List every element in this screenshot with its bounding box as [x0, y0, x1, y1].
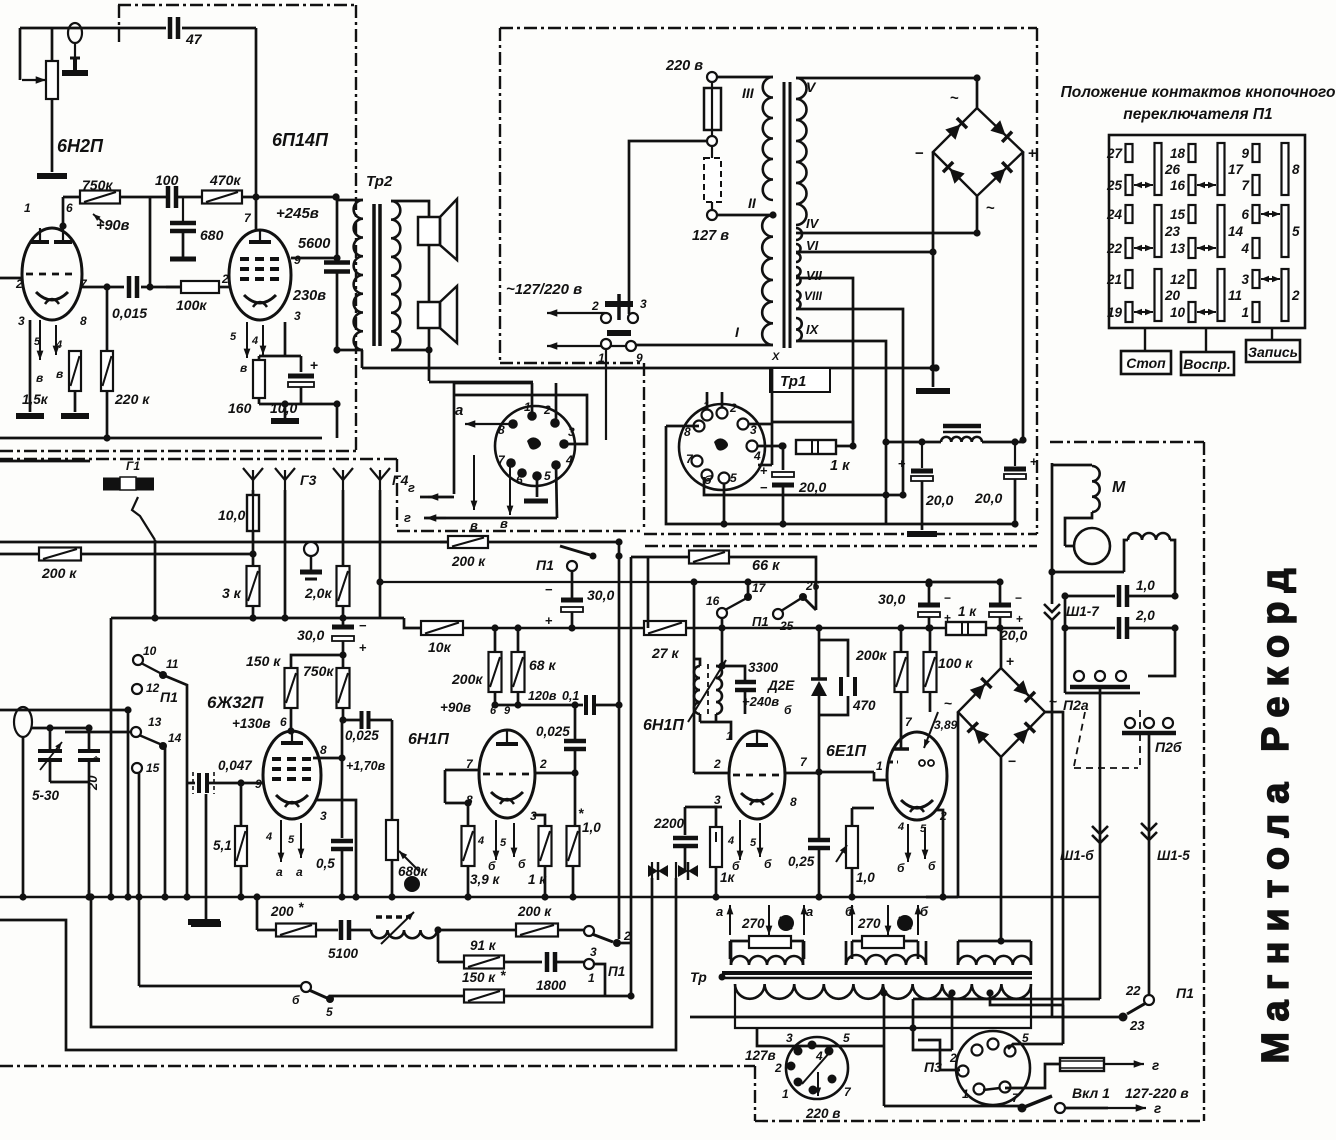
- svg-text:8: 8: [790, 795, 797, 809]
- wire 13 contact: [127, 710, 130, 897]
- resistor 3,9к: [445, 802, 470, 805]
- svg-text:1: 1: [524, 400, 531, 414]
- svg-text:21: 21: [1106, 272, 1122, 287]
- pin3 wire: [315, 800, 356, 897]
- resistor 1к bias: [946, 622, 986, 635]
- contact table box: [1109, 135, 1305, 328]
- cap 30,0 AM: [342, 618, 345, 625]
- rectifier bridge 2: [958, 668, 1045, 757]
- resistor 2,0к: [342, 490, 345, 566]
- svg-text:~127/220 в: ~127/220 в: [506, 281, 582, 298]
- bridge2 connections: [1000, 628, 1003, 668]
- wire motor junction: [1052, 571, 1124, 574]
- svg-text:680: 680: [200, 227, 224, 243]
- resistor 150к*: [330, 996, 464, 999]
- svg-text:в: в: [36, 371, 43, 385]
- Тр core: [722, 971, 1032, 975]
- svg-text:б: б: [292, 993, 300, 1007]
- svg-text:IV: IV: [806, 216, 820, 231]
- svg-text:Ш1-5: Ш1-5: [1157, 848, 1190, 863]
- svg-text:0,1: 0,1: [562, 689, 579, 703]
- svg-text:22: 22: [1106, 241, 1123, 256]
- svg-text:+90в: +90в: [440, 700, 471, 715]
- radio bus upper: [111, 617, 404, 620]
- svg-text:4: 4: [727, 835, 734, 847]
- svg-text:18: 18: [1170, 146, 1186, 161]
- svg-text:16: 16: [706, 594, 720, 608]
- svg-text:Воспр.: Воспр.: [1183, 356, 1230, 372]
- resistor 5,1: [237, 779, 244, 786]
- svg-text:~: ~: [986, 200, 995, 217]
- Ш1-5 connector: [1141, 823, 1157, 831]
- svg-text:Стоп: Стоп: [1126, 355, 1166, 371]
- ground 1,5к: [16, 413, 44, 419]
- bottom wire amp: [0, 437, 322, 440]
- speaker return wires: [429, 381, 533, 384]
- svg-text:3: 3: [714, 793, 721, 807]
- contacts group1 row1: [1126, 144, 1133, 162]
- svg-text:9: 9: [294, 253, 301, 267]
- winding VII: [796, 267, 801, 285]
- svg-text:−: −: [760, 480, 768, 495]
- svg-text:1,5к: 1,5к: [22, 392, 49, 407]
- svg-text:12: 12: [146, 681, 160, 695]
- П1 contact 6-5: [139, 985, 301, 988]
- motor M: [1051, 463, 1054, 572]
- svg-text:+: +: [898, 456, 906, 471]
- svg-text:+: +: [310, 357, 318, 373]
- svg-text:X: X: [771, 351, 780, 363]
- svg-text:0,025: 0,025: [345, 728, 379, 743]
- svg-text:Ш1-б: Ш1-б: [1060, 848, 1094, 863]
- heater return wires: [666, 425, 699, 428]
- Ш1-7 connector: [1044, 604, 1060, 612]
- svg-text:0,025: 0,025: [536, 724, 570, 739]
- resistor 200*: [256, 897, 259, 930]
- svg-text:3: 3: [18, 314, 25, 328]
- svg-text:25: 25: [779, 619, 794, 633]
- cathode arrows 6Н1П2: [739, 820, 741, 860]
- svg-text:17: 17: [1228, 162, 1245, 177]
- svg-text:*: *: [578, 805, 584, 821]
- bus 582: [380, 581, 929, 583]
- pot 680к: [391, 800, 394, 820]
- svg-text:26: 26: [1164, 162, 1181, 177]
- svg-text:2: 2: [949, 1051, 957, 1065]
- svg-text:6: 6: [66, 201, 73, 215]
- filter cap 20,0 first: [921, 442, 923, 468]
- socket a wires: [531, 383, 534, 416]
- svg-text:6: 6: [1241, 207, 1249, 222]
- svg-text:в: в: [56, 367, 63, 381]
- svg-text:6: 6: [516, 473, 523, 487]
- wire 15 down: [138, 772, 141, 897]
- ground bus radio: [0, 896, 1100, 899]
- wire VII loop: [772, 422, 853, 446]
- svg-text:5600: 5600: [298, 236, 330, 252]
- svg-text:14: 14: [168, 731, 182, 745]
- svg-text:1 к: 1 к: [528, 872, 547, 887]
- svg-text:100 к: 100 к: [938, 655, 973, 671]
- cap 30,0 П1: [571, 571, 574, 598]
- svg-text:5: 5: [843, 1031, 850, 1045]
- svg-text:1: 1: [1241, 305, 1249, 320]
- svg-text:30,0: 30,0: [587, 587, 614, 603]
- Тр1 label box: [770, 368, 830, 392]
- volume pot: [22, 79, 46, 81]
- winding VI: [796, 244, 801, 262]
- svg-text:+: +: [1006, 653, 1014, 669]
- ground radio bus: [188, 919, 220, 925]
- capacitor 680: [182, 197, 184, 222]
- svg-text:20,0: 20,0: [798, 479, 826, 495]
- Тр1 primary III: [717, 76, 773, 79]
- cap 2,0 tape: [1065, 627, 1115, 630]
- Тр2 core: [372, 204, 376, 346]
- svg-text:5: 5: [750, 837, 757, 849]
- П3 socket right: [956, 1031, 1030, 1105]
- svg-text:III: III: [742, 85, 755, 101]
- left frame down: [110, 618, 113, 897]
- wire bottom left: [884, 1105, 1022, 1108]
- svg-text:270: 270: [741, 916, 765, 931]
- svg-text:2,0: 2,0: [1135, 608, 1155, 623]
- power block border: [500, 27, 1037, 29]
- svg-text:15: 15: [1170, 207, 1186, 222]
- svg-text:26: 26: [805, 579, 820, 593]
- svg-text:3: 3: [320, 809, 327, 823]
- Тр2 secondary: [391, 201, 400, 350]
- svg-text:Запись: Запись: [1248, 344, 1298, 360]
- resistor 91к: [438, 961, 464, 964]
- fuse 220: [704, 88, 721, 130]
- capacitor 5600: [336, 197, 339, 262]
- contacts group3 row1: [1253, 144, 1260, 162]
- svg-text:25: 25: [1106, 178, 1123, 193]
- wire selector down: [605, 349, 607, 440]
- fuse bottom: [1005, 1064, 1060, 1088]
- bridge top wire: [976, 78, 979, 108]
- wire fb down: [437, 930, 440, 962]
- cathode arrows 6Ж32П: [280, 820, 282, 862]
- svg-text:2: 2: [539, 757, 547, 771]
- svg-text:20: 20: [85, 775, 100, 791]
- antenna symbols: [243, 468, 263, 480]
- svg-text:Тр: Тр: [690, 969, 707, 985]
- svg-text:3300: 3300: [748, 660, 779, 675]
- svg-text:4: 4: [565, 453, 573, 467]
- svg-text:~: ~: [950, 90, 959, 107]
- svg-text:IX: IX: [806, 322, 820, 337]
- resistor 100к 6Е1П: [926, 624, 933, 631]
- svg-text:200 к: 200 к: [451, 554, 486, 569]
- П1 contact 3-2: [584, 926, 594, 936]
- wire top 582: [929, 581, 1000, 584]
- heater wire: [362, 367, 936, 370]
- wire 11 down: [163, 675, 187, 897]
- head contacts: [648, 865, 658, 877]
- svg-text:5: 5: [326, 1005, 333, 1019]
- svg-text:2: 2: [543, 403, 551, 417]
- tape deck block border: [1050, 441, 1204, 443]
- svg-text:200: 200: [270, 904, 294, 919]
- svg-text:13: 13: [1170, 241, 1186, 256]
- long vertical 66к line: [630, 557, 633, 996]
- svg-text:−: −: [1008, 753, 1016, 769]
- svg-text:П1: П1: [1176, 985, 1194, 1001]
- svg-text:10,0: 10,0: [218, 507, 245, 523]
- П2а dashed: [1074, 712, 1085, 766]
- speaker 1: [418, 217, 440, 245]
- П2 wires down: [1099, 687, 1102, 999]
- resistor 1к first: [533, 815, 545, 826]
- resistor 220к: [106, 287, 109, 351]
- svg-text:1: 1: [598, 351, 605, 365]
- tube 6Н2П: [22, 228, 82, 320]
- wire 150 vertical: [149, 197, 152, 287]
- wire 20 down: [88, 782, 91, 897]
- Тр1 primary II-I: [717, 214, 773, 217]
- П1 switch 30,0: [440, 541, 449, 544]
- antenna G4 down: [379, 490, 382, 618]
- cap 20*: [88, 728, 91, 749]
- svg-text:Тр2: Тр2: [366, 173, 393, 190]
- ground under pot: [37, 173, 67, 179]
- heater socket: [679, 404, 765, 490]
- bowtie verticals: [651, 862, 653, 880]
- svg-text:23: 23: [1129, 1018, 1145, 1033]
- pin2 wire 6Е1П: [937, 810, 943, 897]
- resistor 160: [284, 322, 287, 356]
- cathode arrows 6Е1П: [907, 824, 909, 862]
- cap 1800: [545, 952, 550, 972]
- svg-text:4: 4: [251, 335, 258, 347]
- Тр secondary taps: [883, 993, 886, 1106]
- resistor 3к: [252, 554, 255, 566]
- g lines left: [420, 496, 454, 499]
- svg-text:17: 17: [752, 581, 767, 595]
- voltage selector contacts: [601, 313, 611, 323]
- contacts group3 row3: [1253, 270, 1260, 288]
- svg-text:220 в: 220 в: [805, 1106, 840, 1121]
- svg-text:−: −: [944, 591, 951, 605]
- filter cap 20,0 second: [1014, 442, 1016, 466]
- svg-text:16: 16: [1170, 178, 1186, 193]
- svg-text:б: б: [920, 904, 929, 919]
- tube 6Н1П first: [479, 730, 535, 818]
- speaker 2: [418, 302, 440, 328]
- svg-text:1: 1: [588, 971, 595, 985]
- button Воспр: [1205, 328, 1207, 352]
- svg-text:1: 1: [24, 201, 31, 215]
- contacts group2 row3: [1189, 270, 1196, 288]
- svg-text:Г3: Г3: [300, 472, 317, 488]
- svg-text:750к: 750к: [303, 663, 334, 679]
- svg-text:6Н2П: 6Н2П: [57, 136, 104, 156]
- svg-text:3: 3: [786, 1031, 793, 1045]
- svg-text:1,0: 1,0: [856, 870, 875, 885]
- svg-text:10: 10: [143, 644, 157, 658]
- svg-text:2: 2: [1291, 288, 1300, 303]
- svg-text:4: 4: [753, 449, 761, 463]
- svg-text:в: в: [470, 518, 478, 533]
- svg-text:14: 14: [1228, 224, 1244, 239]
- svg-text:−: −: [1015, 591, 1022, 605]
- wire to 200к П1: [438, 929, 517, 932]
- stub line left: [0, 460, 90, 463]
- svg-text:20,0: 20,0: [925, 492, 953, 508]
- cap 20,0 bias: [999, 582, 1002, 603]
- resistor 66к: [647, 557, 650, 628]
- svg-text:8: 8: [1292, 162, 1300, 177]
- radio block border: [0, 458, 397, 460]
- Ш1-б connector: [1092, 826, 1108, 834]
- svg-text:2: 2: [774, 1061, 782, 1075]
- socket a: [495, 406, 575, 486]
- svg-text:+: +: [760, 463, 768, 478]
- svg-text:II: II: [748, 195, 757, 211]
- resistor 100к: [181, 281, 219, 293]
- svg-text:2200: 2200: [653, 816, 685, 831]
- svg-text:1 к: 1 к: [830, 458, 850, 474]
- svg-text:1: 1: [782, 1087, 789, 1101]
- svg-text:−: −: [915, 145, 924, 162]
- svg-text:VIII: VIII: [804, 289, 823, 303]
- svg-text:4: 4: [1240, 241, 1249, 256]
- rectifier bridge 1: [933, 108, 1023, 196]
- arrow a: [465, 423, 509, 425]
- svg-text:8: 8: [80, 314, 87, 328]
- svg-text:+: +: [1028, 145, 1037, 162]
- trimmer 5-30: [49, 728, 52, 749]
- wire fuse to selector: [629, 141, 707, 314]
- svg-text:1 к: 1 к: [958, 604, 977, 619]
- svg-text:а: а: [296, 865, 303, 879]
- wire 750к down: [341, 720, 344, 838]
- long vertical П1 line: [618, 542, 621, 939]
- svg-text:+: +: [545, 613, 553, 628]
- cap 0,025 radio1: [343, 719, 360, 722]
- svg-text:0,047: 0,047: [218, 758, 253, 773]
- cap 0,1: [584, 695, 588, 715]
- ground filter cap: [907, 531, 937, 537]
- svg-text:+240в: +240в: [742, 694, 779, 709]
- svg-text:+: +: [359, 640, 367, 655]
- resistor 1,0 star: [567, 826, 580, 866]
- svg-text:100: 100: [155, 172, 179, 188]
- tube 6Е1П: [887, 732, 947, 820]
- svg-text:2: 2: [221, 272, 229, 286]
- svg-text:2,0к: 2,0к: [304, 585, 332, 601]
- svg-text:5: 5: [730, 471, 737, 485]
- svg-text:П2б: П2б: [1155, 739, 1182, 755]
- svg-text:г: г: [1154, 1101, 1161, 1116]
- wire pin7 left: [445, 769, 479, 772]
- svg-text:6П14П: 6П14П: [272, 130, 329, 150]
- wire jack: [32, 727, 89, 730]
- capacitor 0,015: [127, 276, 132, 298]
- svg-text:160: 160: [228, 400, 252, 416]
- svg-text:б: б: [897, 861, 905, 875]
- wire speakers: [428, 245, 431, 302]
- svg-text:VII: VII: [806, 268, 822, 283]
- svg-text:13: 13: [148, 715, 162, 729]
- svg-text:П1: П1: [608, 964, 625, 979]
- svg-text:П1: П1: [752, 614, 769, 629]
- antenna G3 down: [284, 490, 287, 618]
- oscillator coil: [694, 666, 700, 714]
- cathode arrows 6П14П: [246, 322, 248, 358]
- svg-text:в: в: [240, 361, 247, 375]
- cap 3300: [722, 666, 745, 680]
- П3 socket left: [786, 1037, 848, 1099]
- svg-text:12: 12: [1170, 272, 1186, 287]
- bridge plus rail: [1022, 152, 1025, 440]
- svg-text:127в: 127в: [745, 1048, 776, 1063]
- svg-text:1,0: 1,0: [1136, 578, 1155, 593]
- socket a bottom: [536, 476, 539, 497]
- svg-text:5: 5: [544, 469, 551, 483]
- svg-text:1к: 1к: [720, 870, 736, 885]
- Тр1 core: [783, 82, 786, 348]
- capacitor 47: [168, 17, 173, 39]
- svg-text:3: 3: [294, 309, 301, 323]
- svg-text:5: 5: [1292, 224, 1300, 239]
- svg-text:Ш1-7: Ш1-7: [1066, 604, 1100, 619]
- svg-text:3,9 к: 3,9 к: [470, 872, 501, 887]
- svg-text:5: 5: [230, 331, 237, 343]
- svg-text:*: *: [500, 967, 506, 983]
- cap 470: [819, 640, 848, 677]
- Тр2 primary: [336, 199, 363, 202]
- wire grid 6П14П: [255, 28, 258, 197]
- svg-text:г: г: [1152, 1058, 1159, 1073]
- tube 6Н1П second: [729, 731, 785, 819]
- svg-text:1,0: 1,0: [582, 820, 601, 835]
- svg-text:а: а: [716, 904, 723, 919]
- svg-text:15: 15: [146, 761, 160, 775]
- svg-text:9: 9: [636, 351, 643, 365]
- button Стоп: [1144, 328, 1146, 351]
- svg-text:2: 2: [591, 299, 599, 313]
- svg-text:3 к: 3 к: [222, 585, 242, 601]
- antenna switch arm: [132, 497, 155, 540]
- input jack: [68, 23, 82, 43]
- phone jack: [304, 542, 318, 556]
- svg-text:Вкл 1: Вкл 1: [1072, 1085, 1110, 1101]
- svg-text:200к: 200к: [451, 671, 483, 687]
- svg-text:6Н1П: 6Н1П: [643, 717, 684, 734]
- wire pin9: [291, 257, 337, 260]
- svg-text:230в: 230в: [292, 288, 326, 304]
- cap 20,0 heater: [782, 446, 785, 470]
- svg-text:Г1: Г1: [126, 459, 140, 473]
- svg-text:4: 4: [265, 831, 272, 843]
- П3 wires: [913, 1028, 952, 1050]
- svg-text:М: М: [1112, 479, 1126, 496]
- svg-text:г: г: [408, 480, 415, 495]
- wire П2а to П3: [912, 999, 915, 1028]
- svg-text:470к: 470к: [209, 172, 241, 188]
- bus 628 radio: [422, 627, 1023, 629]
- svg-text:переключателя П1: переключателя П1: [1123, 106, 1272, 123]
- svg-text:П2а: П2а: [1063, 697, 1089, 713]
- П1 contact 22-23: [1144, 995, 1154, 1005]
- svg-text:Тр1: Тр1: [780, 373, 806, 390]
- svg-text:19: 19: [1107, 305, 1123, 320]
- svg-text:2: 2: [729, 401, 737, 415]
- П1 contacts 16-26: [717, 608, 727, 618]
